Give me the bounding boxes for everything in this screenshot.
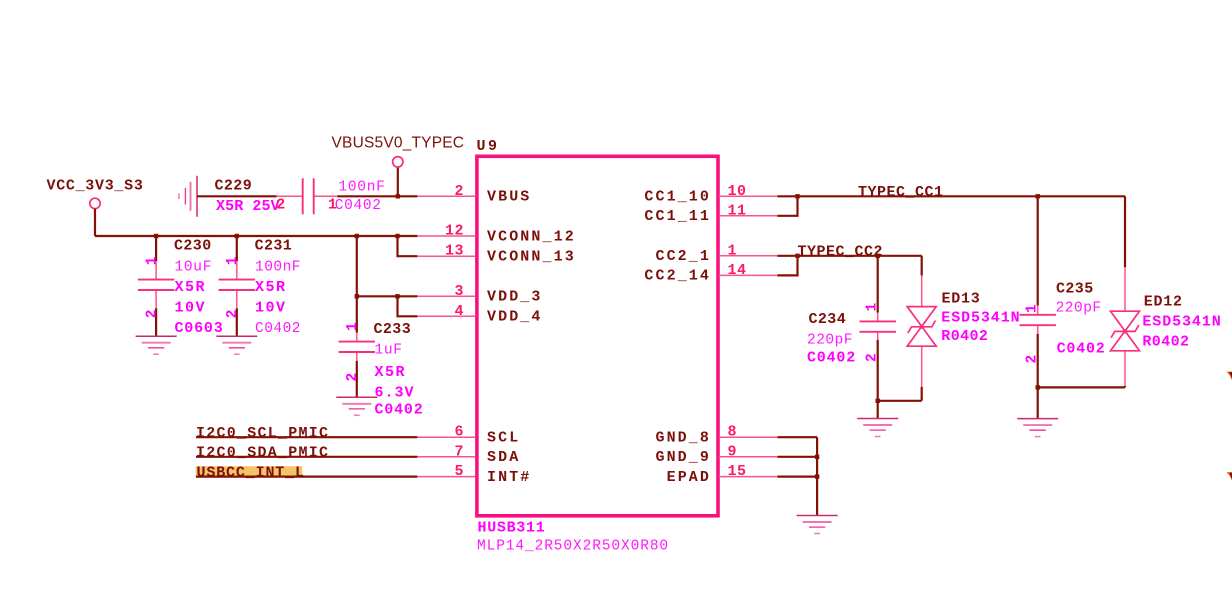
pin 15 line: [719, 476, 778, 478]
junction at C231: [235, 234, 239, 238]
junction VDD3: [355, 294, 359, 298]
junction CC1 pins: [795, 194, 799, 198]
svg-text:C230: C230: [174, 238, 212, 255]
svg-text:CC1_11: CC1_11: [644, 208, 711, 225]
svg-text:7: 7: [454, 443, 464, 460]
svg-text:1: 1: [225, 256, 241, 265]
junction C234 ground: [876, 399, 880, 403]
svg-text:I2C0_SDA_PMIC: I2C0_SDA_PMIC: [196, 445, 329, 462]
svg-text:R0402: R0402: [941, 328, 988, 345]
svg-text:C0402: C0402: [255, 321, 301, 337]
svg-text:TYPEC_CC2: TYPEC_CC2: [798, 243, 884, 260]
svg-text:VCONN_13: VCONN_13: [487, 249, 576, 266]
wire I2C0_SCL_PMIC: [196, 436, 417, 438]
pin 10 line: [719, 195, 778, 197]
pin 5 line: [417, 476, 475, 478]
pin 8 line: [719, 436, 778, 438]
svg-text:2: 2: [225, 310, 241, 319]
junction at pin13 branch: [395, 234, 399, 238]
junction C235 ground: [1036, 385, 1040, 389]
wire C229 left: [197, 195, 277, 197]
svg-text:I2C0_SCL_PMIC: I2C0_SCL_PMIC: [196, 425, 329, 442]
wire to ground C235: [1037, 387, 1039, 418]
svg-text:6.3V: 6.3V: [375, 385, 415, 402]
wire VDD branch vertical: [356, 236, 358, 333]
svg-text:1: 1: [328, 197, 338, 214]
svg-text:10uF: 10uF: [175, 259, 213, 275]
svg-text:C229: C229: [215, 178, 253, 195]
junction C235 branch: [1036, 194, 1040, 198]
svg-text:R0402: R0402: [1142, 333, 1189, 350]
wire to pin13 step: [398, 236, 418, 256]
svg-text:VCC_3V3_S3: VCC_3V3_S3: [47, 178, 144, 195]
wire C235 bottom rail: [1038, 386, 1125, 388]
wire GND_9: [777, 456, 817, 458]
svg-text:ED13: ED13: [942, 290, 981, 307]
junction VBUS: [396, 194, 400, 198]
wire C234 bottom rail: [878, 400, 922, 402]
svg-text:2: 2: [276, 197, 286, 214]
svg-text:INT#: INT#: [487, 469, 531, 486]
svg-text:C234: C234: [809, 311, 847, 328]
off-page arrow fragment upper: [1227, 372, 1232, 380]
svg-text:CC2_1: CC2_1: [655, 248, 711, 265]
pin 12 line: [417, 235, 475, 237]
pin 6 line: [417, 436, 475, 438]
pin 7 line: [417, 456, 475, 458]
svg-text:10V: 10V: [255, 300, 287, 317]
svg-text:C0402: C0402: [375, 402, 424, 419]
capacitor C233: [339, 321, 424, 419]
wire pin11 join: [777, 196, 797, 216]
svg-text:2: 2: [454, 183, 464, 200]
junction at C230: [154, 234, 158, 238]
wire GND vertical: [816, 437, 818, 515]
svg-text:2: 2: [144, 310, 160, 319]
svg-text:EPAD: EPAD: [667, 469, 711, 486]
wire to pin3: [357, 295, 418, 297]
svg-text:GND_9: GND_9: [655, 449, 711, 466]
svg-text:USBCC_INT_L: USBCC_INT_L: [197, 464, 305, 481]
ground C230: [136, 336, 177, 354]
ground C235: [1017, 419, 1058, 437]
svg-text:GND_8: GND_8: [655, 430, 711, 447]
pin 11 line: [719, 215, 778, 217]
wire to ground C234: [877, 401, 879, 419]
ground C231: [216, 336, 257, 354]
junction EPAD: [815, 474, 819, 478]
ground C233: [336, 397, 377, 415]
highlight box USBCC_INT_L: [196, 466, 302, 476]
svg-text:C235: C235: [1056, 281, 1094, 298]
svg-text:X5R: X5R: [175, 279, 207, 296]
svg-text:1: 1: [144, 256, 160, 265]
svg-text:X5R: X5R: [255, 279, 287, 296]
ground U9: [797, 516, 838, 534]
wire TYPEC_CC2: [777, 255, 921, 257]
wire pin14 join: [777, 256, 797, 276]
svg-text:TYPEC_CC1: TYPEC_CC1: [858, 184, 944, 201]
net port circle VCC_3V3_S3: [90, 198, 100, 208]
svg-text:ESD5341N: ESD5341N: [1142, 314, 1221, 331]
capacitor C230: [138, 236, 224, 337]
svg-text:C0402: C0402: [807, 350, 856, 367]
svg-text:VBUS: VBUS: [487, 189, 531, 206]
svg-text:100nF: 100nF: [339, 179, 386, 195]
svg-text:VDD_3: VDD_3: [487, 289, 543, 306]
svg-text:14: 14: [728, 262, 747, 279]
svg-text:U9: U9: [477, 138, 500, 155]
junction at VDD branch: [355, 234, 359, 238]
wire C229 to pin2: [337, 195, 417, 197]
svg-text:10V: 10V: [175, 300, 207, 317]
pin 13 line: [417, 255, 475, 257]
svg-text:ESD5341N: ESD5341N: [941, 309, 1020, 326]
svg-text:MLP14_2R50X2R50X0R80: MLP14_2R50X2R50X0R80: [477, 539, 669, 555]
svg-text:VDD_4: VDD_4: [487, 309, 543, 326]
svg-text:2: 2: [345, 373, 361, 382]
op-amp U9 HUSB311 IC body: [477, 156, 718, 516]
svg-text:1: 1: [728, 242, 738, 259]
svg-text:VBUS5V0_TYPEC: VBUS5V0_TYPEC: [332, 135, 465, 152]
wire USBCC_INT_L: [196, 476, 417, 478]
svg-text:C0603: C0603: [175, 320, 224, 337]
svg-text:HUSB311: HUSB311: [478, 520, 546, 537]
svg-text:2: 2: [1025, 355, 1041, 364]
svg-text:C0402: C0402: [1057, 341, 1106, 358]
svg-text:X5R: X5R: [375, 364, 407, 381]
svg-text:C0402: C0402: [335, 198, 382, 214]
junction CC2 pins: [795, 254, 799, 258]
svg-text:SCL: SCL: [487, 430, 520, 447]
svg-text:8: 8: [728, 424, 738, 441]
capacitor C229: [215, 178, 386, 216]
wire to pin4 step: [398, 296, 418, 316]
svg-text:ED12: ED12: [1144, 294, 1183, 311]
capacitor C234: [807, 256, 896, 401]
wire from VCC port down: [94, 209, 96, 236]
svg-text:1: 1: [345, 322, 361, 331]
svg-text:11: 11: [728, 202, 747, 219]
ground C234: [857, 419, 898, 437]
junction GND_9: [815, 455, 819, 459]
transistor ED12 ESD diode: [1111, 196, 1222, 387]
junction pin4 branch: [395, 294, 399, 298]
svg-text:5: 5: [454, 463, 464, 480]
svg-text:220pF: 220pF: [1056, 301, 1102, 317]
pin 3 line: [417, 295, 475, 297]
svg-text:6: 6: [454, 424, 464, 441]
svg-text:3: 3: [454, 283, 464, 300]
pin 14 line: [719, 274, 778, 276]
junction C234 branch: [876, 254, 880, 258]
svg-text:220pF: 220pF: [807, 333, 853, 349]
pin 4 line: [417, 315, 475, 317]
svg-text:C231: C231: [255, 238, 293, 255]
svg-text:2: 2: [865, 353, 881, 362]
wire power bus horizontal: [95, 235, 417, 237]
svg-text:12: 12: [445, 223, 464, 240]
capacitor C231: [219, 236, 301, 337]
svg-text:CC2_14: CC2_14: [644, 268, 711, 285]
svg-text:9: 9: [728, 443, 738, 460]
wire GND_8: [777, 436, 817, 438]
wire EPAD: [777, 476, 817, 478]
net port circle VBUS5V0_TYPEC: [393, 157, 403, 167]
pin 2 line: [417, 195, 475, 197]
capacitor C235: [1020, 196, 1106, 387]
svg-text:4: 4: [454, 303, 464, 320]
svg-text:SDA: SDA: [487, 449, 520, 466]
off-page arrow fragment lower: [1227, 472, 1232, 480]
svg-text:VCONN_12: VCONN_12: [487, 228, 576, 245]
svg-text:1: 1: [865, 303, 881, 312]
svg-text:CC1_10: CC1_10: [644, 189, 711, 206]
svg-text:C233: C233: [374, 321, 412, 338]
pin 9 line: [719, 456, 778, 458]
svg-text:1: 1: [1025, 304, 1041, 313]
svg-text:1uF: 1uF: [375, 343, 403, 359]
svg-text:X5R 25V: X5R 25V: [216, 198, 280, 215]
svg-text:10: 10: [728, 183, 747, 200]
svg-text:13: 13: [445, 243, 464, 260]
wire TYPEC_CC1: [777, 195, 1125, 197]
ground rotated left for C229: [179, 176, 197, 217]
wire I2C0_SDA_PMIC: [196, 456, 417, 458]
transistor ED13 ESD diode: [907, 256, 1020, 401]
wire VBUS port down: [397, 167, 399, 196]
svg-text:15: 15: [728, 463, 747, 480]
pin 1 line: [719, 255, 778, 257]
svg-text:100nF: 100nF: [255, 259, 301, 275]
